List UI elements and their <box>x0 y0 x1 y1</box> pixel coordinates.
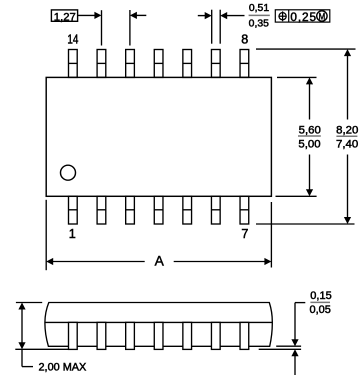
M circle modifier <box>317 11 327 21</box>
svg-text:0,25: 0,25 <box>290 10 317 24</box>
pin 4 <box>154 196 163 224</box>
package body top view <box>46 77 271 196</box>
svg-text:8,20: 8,20 <box>336 125 358 137</box>
dimension line 5,60/5,00 <box>309 83 311 190</box>
extension line pin12 centre <box>129 10 131 46</box>
pin 3 <box>126 196 135 224</box>
pin 5 <box>183 196 192 224</box>
svg-text:5,00: 5,00 <box>298 139 320 151</box>
seating plane extension right <box>259 348 301 350</box>
svg-text:0,35: 0,35 <box>249 19 269 30</box>
svg-text:A: A <box>155 253 165 269</box>
leader to 2,00 MAX <box>22 349 33 366</box>
side view leads <box>69 322 249 349</box>
seating plane line left <box>15 348 68 350</box>
extension line pin tops right <box>256 48 356 50</box>
arrow pointing right at pin9 left edge <box>198 15 205 17</box>
dimension 1,27 basic box <box>51 10 77 21</box>
svg-text:2,00 MAX: 2,00 MAX <box>39 362 88 374</box>
svg-text:0,51: 0,51 <box>249 3 269 14</box>
pin 12 <box>126 50 135 78</box>
extension line pin bottoms right <box>256 223 355 225</box>
svg-text:5,60: 5,60 <box>299 125 321 137</box>
dimension line A <box>52 261 265 263</box>
svg-text:0,15: 0,15 <box>310 290 331 302</box>
pin 10 <box>183 50 192 78</box>
svg-text:7: 7 <box>241 227 248 241</box>
svg-text:0,05: 0,05 <box>309 304 330 316</box>
pin 13 <box>97 50 106 78</box>
extension line A left <box>45 200 47 270</box>
arrow pointing left at pin9 right edge <box>220 12 227 19</box>
pin 2 <box>97 196 106 224</box>
feature control frame <box>275 10 330 22</box>
extension line body bottom right side view <box>276 345 301 347</box>
pin 6 <box>211 196 220 224</box>
extension line pin13 centre <box>101 10 103 45</box>
pin 1 <box>69 196 78 224</box>
pin 14 <box>69 50 78 78</box>
svg-text:14: 14 <box>67 31 78 46</box>
extension line side body top left <box>16 302 42 304</box>
arrow pointing left at pin12 centre <box>130 12 137 19</box>
extension line body top right <box>277 76 317 78</box>
dimension line 2,00 MAX <box>21 309 23 344</box>
svg-text:1,27: 1,27 <box>54 12 76 24</box>
pin 8 <box>240 50 249 78</box>
extension line pin9 left edge <box>211 10 213 44</box>
extension line body bottom right <box>276 195 317 197</box>
svg-text:7,40: 7,40 <box>336 139 358 151</box>
pin 1 index circle <box>61 165 76 180</box>
pin 9 <box>211 50 220 78</box>
dimension line 8,20/7,40 <box>347 55 349 218</box>
svg-text:1: 1 <box>69 227 76 241</box>
dimension 1,27 leader line with arrow <box>78 14 96 16</box>
extension line A right <box>270 202 272 268</box>
svg-text:M: M <box>319 12 326 23</box>
true position symbol <box>278 11 286 21</box>
pin 11 <box>154 50 163 78</box>
side view lead emergence line <box>45 321 272 323</box>
dimension 0,15/0,05 <box>295 303 305 375</box>
svg-text:8: 8 <box>241 33 248 47</box>
extension line pin9 right edge <box>219 10 221 44</box>
pin 7 <box>240 196 249 224</box>
side view body <box>45 303 272 347</box>
